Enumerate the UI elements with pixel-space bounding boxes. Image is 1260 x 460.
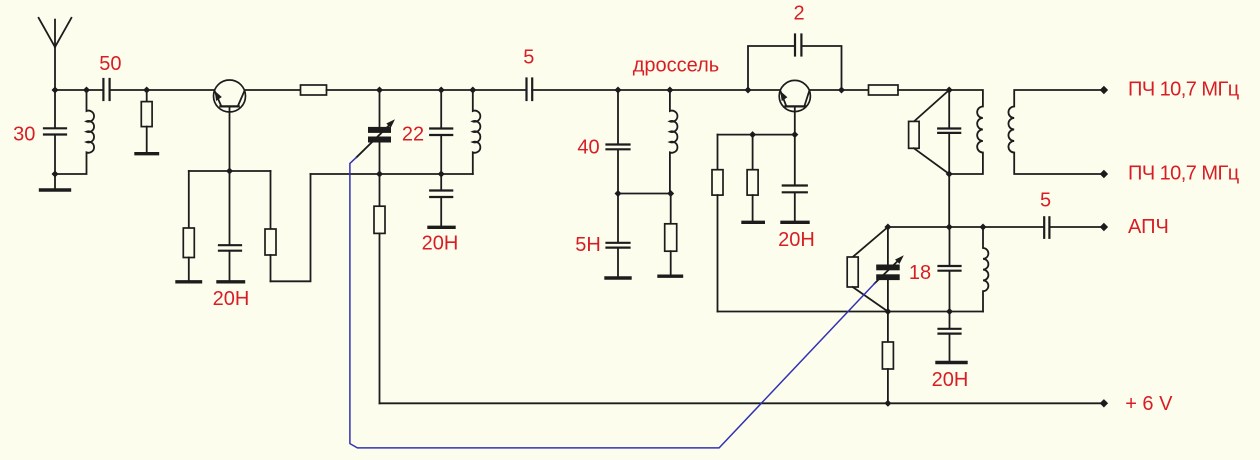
svg-text:5Н: 5Н: [575, 234, 601, 256]
terminal +6V: [1100, 399, 1108, 407]
node R1 top: [143, 87, 150, 94]
capacitor 5 (coupling): [527, 79, 533, 101]
svg-text:2: 2: [793, 3, 804, 25]
node AFC rail left: [884, 224, 891, 231]
wire varicap net horizontal: [718, 311, 984, 313]
capacitor IF tank: [938, 90, 960, 174]
resistor R7 (Q2 collector, horizontal): [869, 85, 899, 95]
node IF tank bottom: [946, 171, 953, 178]
resistor R2 (Q1 collector, horizontal): [301, 85, 327, 95]
svg-text:50: 50: [99, 53, 121, 75]
svg-text:ПЧ 10,7 МГц: ПЧ 10,7 МГц: [1128, 162, 1239, 184]
node choke top: [666, 87, 673, 94]
terminal IF out 2: [1100, 170, 1108, 178]
capacitor 2 (feedback loop): [748, 35, 842, 91]
node AFC rail mid: [946, 224, 953, 231]
node tank1 cap bottom: [438, 171, 445, 178]
terminal AFC: [1100, 223, 1108, 231]
wire IF tank to AFC rail: [948, 174, 950, 227]
node +6V rail: [884, 400, 891, 407]
wire main bus segment B: [110, 89, 215, 91]
wire +6V rail: [380, 402, 1104, 404]
trimmer capacitor 22: [357, 90, 395, 174]
wire main bus segment F: [810, 89, 869, 91]
node tank1 cap top: [438, 87, 445, 94]
terminal IF out 1: [1100, 86, 1108, 94]
resistor R9 (grounded): [747, 135, 758, 221]
svg-text:+ 6 V: + 6 V: [1125, 393, 1173, 415]
node trimmer top: [376, 87, 383, 94]
wire main bus segment G: [898, 89, 949, 91]
svg-text:20Н: 20Н: [213, 288, 250, 310]
svg-text:ПЧ 10,7 МГц: ПЧ 10,7 МГц: [1128, 78, 1239, 100]
svg-text:5: 5: [523, 47, 534, 69]
inductor choke: [670, 90, 678, 194]
wire R4 to tank1 rail: [271, 174, 311, 281]
capacitor 5 (AFC): [1044, 217, 1049, 238]
wire tuning gang link (blue): [350, 157, 876, 448]
resistor R12 (varicap to +6V): [882, 312, 893, 404]
resistor R3 (left leg): [183, 171, 194, 280]
node cap40 top: [615, 87, 622, 94]
svg-text:40: 40: [577, 137, 599, 159]
transistor Q2: [779, 80, 810, 134]
svg-text:20Н: 20Н: [778, 229, 815, 251]
antenna W1: [39, 18, 72, 90]
node varicap bottom: [884, 308, 891, 315]
svg-text:5: 5: [1040, 190, 1051, 212]
node trimmer bottom: [376, 171, 383, 178]
wire Q2 base line: [718, 134, 795, 136]
svg-text:22: 22: [402, 124, 424, 146]
node feedback left: [745, 87, 752, 94]
ground under varicap 20H cap: [937, 361, 966, 364]
capacitor 20H (Q2): [783, 135, 807, 221]
node IF tank top: [946, 87, 953, 94]
wire AFC rail: [888, 226, 1044, 228]
node choke bottom: [667, 190, 674, 197]
node varicap tank cap bottom: [946, 308, 953, 315]
capacitor 50: [103, 79, 109, 100]
varicap 18: [875, 227, 904, 312]
inductor varicap tank: [983, 227, 988, 312]
ground under R6: [659, 275, 682, 278]
capacitor 20H (Q1 emitter): [219, 171, 241, 280]
capacitor 20H (tank1 decoupling): [430, 174, 452, 226]
transformer T1 secondary: [1008, 90, 1103, 174]
svg-text:АПЧ: АПЧ: [1128, 216, 1169, 238]
wire main bus segment D: [327, 89, 527, 91]
node feedback right: [838, 87, 845, 94]
wire Q1 base line: [189, 170, 271, 172]
wire tank1 bottom rail: [311, 173, 473, 175]
node Q2 base line mid: [749, 131, 756, 138]
ground under R3: [177, 280, 201, 283]
svg-text:30: 30: [13, 124, 35, 146]
ground under R9: [743, 221, 763, 224]
svg-text:дроссель: дроссель: [633, 55, 719, 77]
capacitor 20H (varicap tank): [939, 312, 961, 361]
node L2 top: [469, 87, 476, 94]
transistor Q1: [214, 80, 246, 171]
resistor R1 (input bias): [141, 90, 152, 152]
capacitor tank1 fixed: [430, 90, 452, 174]
node antenna cap bottom: [52, 171, 59, 178]
node Q1 emitter junction: [226, 168, 233, 175]
wire antenna to ground: [54, 174, 56, 188]
inductor L1: [55, 90, 94, 174]
node AFC rail coil: [980, 224, 987, 231]
resistor R5 (below trimmer): [374, 174, 385, 403]
resistor R6 (below choke): [665, 194, 677, 275]
ground under antenna: [41, 188, 70, 191]
resistor R4 (right leg): [265, 171, 276, 281]
node cap40 bottom: [615, 190, 622, 197]
capacitor 40: [607, 90, 630, 194]
capacitor 30: [44, 90, 66, 174]
ground under tank1 20H cap: [429, 226, 454, 229]
ground under 20H cap: [218, 280, 244, 283]
wire main bus segment E: [532, 89, 780, 91]
ground under 5H cap: [606, 276, 630, 279]
svg-text:20Н: 20Н: [932, 369, 969, 391]
capacitor varicap tank: [939, 227, 961, 312]
capacitor 5H: [607, 194, 630, 277]
ground under R1: [136, 152, 158, 155]
resistor R8 (left, to varicap net): [712, 135, 723, 312]
wire main bus segment A: [55, 89, 103, 91]
resistor R11 (varicap tank damping): [847, 227, 888, 312]
node coil L1 top: [83, 87, 90, 94]
wire 40/5H junction line: [618, 193, 671, 195]
wire main bus segment C: [245, 89, 301, 91]
svg-text:20Н: 20Н: [422, 233, 459, 255]
svg-text:18: 18: [909, 262, 931, 284]
wire AFC rail right: [1049, 226, 1104, 228]
node antenna junction: [52, 87, 59, 94]
ground under Q2 20H cap: [782, 221, 808, 224]
inductor L2 (tank1): [473, 90, 481, 174]
node Q2 emitter: [791, 131, 798, 138]
resistor R10 (IF tank damping): [909, 90, 950, 174]
transformer T1 primary: [949, 90, 983, 174]
